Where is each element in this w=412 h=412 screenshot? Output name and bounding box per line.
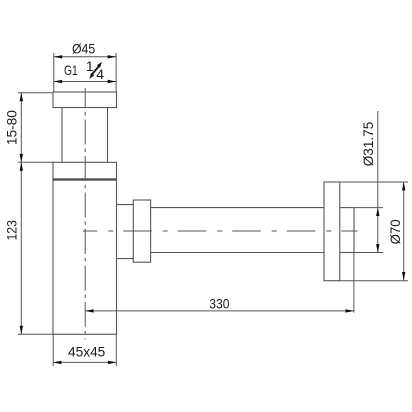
svg-text:G1: G1 [64, 62, 78, 78]
svg-text:123: 123 [4, 220, 20, 241]
svg-text:1: 1 [86, 58, 94, 74]
svg-text:Ø70: Ø70 [387, 219, 403, 244]
svg-text:Ø45: Ø45 [72, 41, 95, 57]
svg-text:45x45: 45x45 [68, 343, 105, 359]
svg-text:15-80: 15-80 [4, 110, 20, 145]
svg-text:Ø31.75: Ø31.75 [360, 122, 376, 167]
svg-text:330: 330 [209, 295, 229, 311]
